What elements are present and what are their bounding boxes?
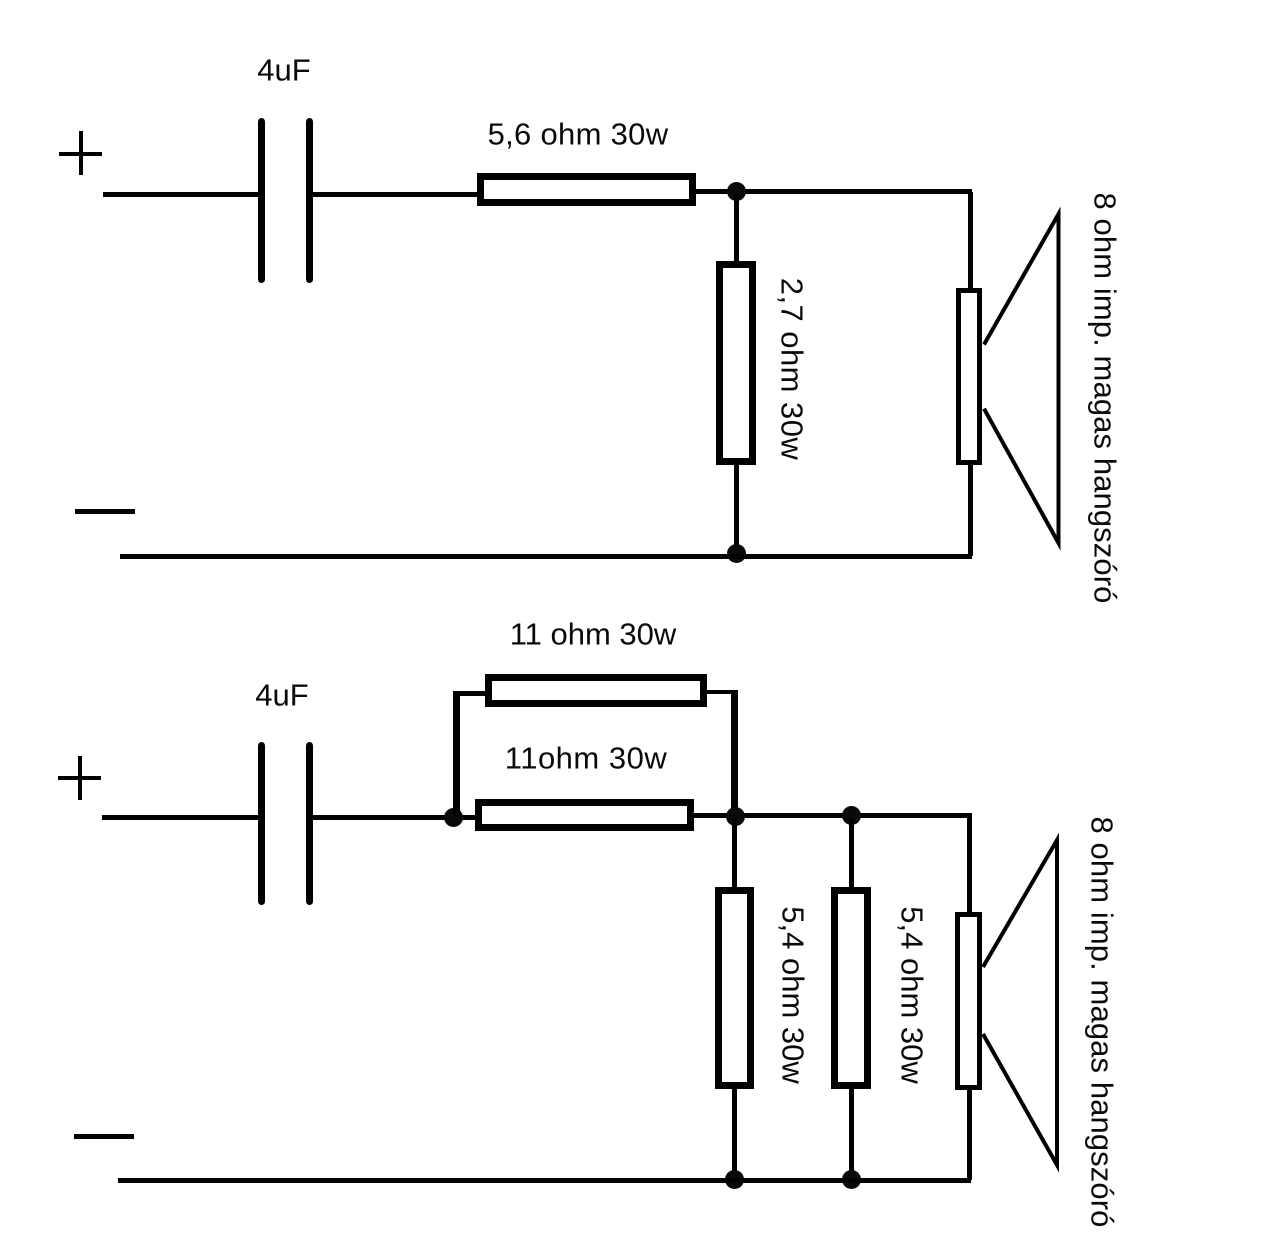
label 8 ohm imp. magas hangszóró (SP1) [1089,192,1120,603]
wire from R4 through node D, node E to speaker corner [694,813,972,818]
loop wire left stub to R3 [453,691,487,696]
wire R5 down to node F [732,1089,737,1180]
resistor R3 11 ohm 30w [485,674,707,707]
wire corner down to speaker SP2 [967,816,972,913]
speaker SP2 body [955,912,982,1091]
capacitor C2 4uF [258,742,265,905]
resistor R2 2,7 ohm 30w [716,261,756,465]
wire from C2 to node C [313,815,475,820]
node B (bottom junction) [727,544,746,563]
wire from C1 to resistor R1 [313,192,478,197]
bottom return wire (top circuit) [120,554,972,559]
label 5,4 ohm 30w (R6) [896,906,927,1084]
node F (bottom junction R5) [725,1170,744,1189]
speaker SP1 cone [975,205,1070,555]
wire node E down to R6 [849,818,854,887]
node G (bottom junction R6) [842,1170,861,1189]
node D (junction R4/loop/R5) [726,807,745,826]
node A (junction R1/R2/speaker) [727,182,746,201]
wire from + to capacitor C2 [102,815,259,820]
plus terminal (bottom circuit) [58,776,101,780]
resistor R4 11ohm 30w [475,799,694,831]
capacitor C1 4uF [258,118,265,283]
loop wire left vertical up from node C [453,691,460,817]
minus terminal (bottom circuit) [74,1134,134,1139]
minus terminal (top circuit) [75,509,135,514]
resistor R6 5,4 ohm 30w [831,887,871,1089]
label 8 ohm imp. magas hangszóró (SP2) [1087,817,1118,1228]
node E (junction R6/speaker) [842,806,861,825]
loop wire right vertical down to node D [731,690,738,816]
plus terminal (top circuit) [59,152,102,156]
wire R6 down to node G [849,1089,854,1180]
resistor R5 5,4 ohm 30w [715,887,754,1089]
label 4uF (C2) [255,679,308,710]
wire from + to capacitor C1 [103,192,259,197]
label 11 ohm 30w (R3) [510,619,677,650]
bottom return wire (bottom circuit) [118,1178,971,1183]
loop wire right stub from R3 [705,690,737,694]
wire node A down to R2 [734,194,739,262]
resistor R1 5,6 ohm 30w [477,173,696,206]
speaker SP2 cone [974,831,1069,1176]
node C (junction C2/R3/R4) [444,808,463,827]
label 2,7 ohm 30w (R2) [777,278,808,460]
wire R2 down to node B [734,465,739,556]
label 5,6 ohm 30w (R1) [488,119,669,150]
speaker SP1 body [956,288,982,465]
wire node D down to R5 [732,818,737,887]
wire from R1 to node A and speaker corner [696,189,972,194]
label 4uF (C1) [257,55,310,86]
label 11ohm 30w (R4) [505,742,667,773]
wire corner down to speaker SP1 [968,192,973,289]
label 5,4 ohm 30w (R5) [777,906,808,1084]
